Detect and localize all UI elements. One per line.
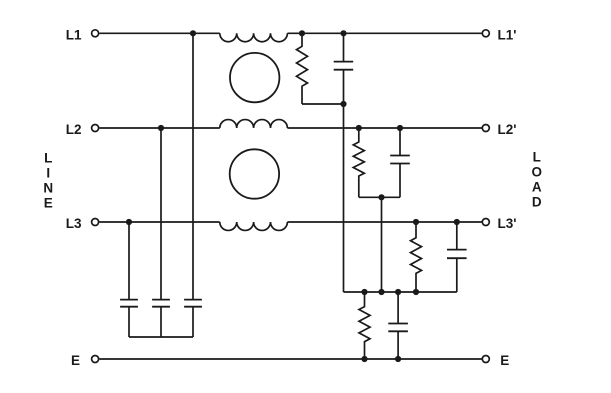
junction E-C4 (395, 356, 401, 362)
svg-text:L1': L1' (498, 27, 517, 42)
capacitor C3 bottom lead (456, 258, 458, 292)
terminal L3' right (482, 219, 489, 226)
wire L3 to star cap (128, 222, 130, 300)
capacitor C2 (390, 156, 410, 164)
wire E line (99, 358, 481, 360)
terminal L3 left (92, 219, 99, 226)
capacitor C4 bottom lead (397, 331, 399, 359)
terminal L2 left (92, 125, 99, 132)
capacitor C2 bottom lead (399, 164, 401, 198)
terminal E left (92, 356, 99, 363)
svg-text:LOAD: LOAD (532, 150, 543, 210)
junction node B (378, 194, 384, 200)
wire L2 right segment (287, 127, 481, 129)
wire CX1 to star point (192, 307, 194, 337)
svg-text:L1: L1 (66, 27, 82, 42)
inductor L1 winding (220, 33, 288, 41)
resistor R1 (297, 33, 308, 104)
core T1 circle (230, 53, 279, 102)
junction L1-star (190, 30, 196, 36)
wire CX2 to star point (160, 307, 162, 337)
wire L3 left segment (99, 221, 220, 223)
junction L1-R1 (299, 30, 305, 36)
capacitor C1 top lead (343, 33, 345, 61)
terminal L1 left (92, 30, 99, 37)
svg-text:E: E (71, 353, 80, 368)
svg-text:L2': L2' (498, 122, 517, 137)
inductor L2 winding (220, 120, 288, 128)
wire R2 bottom (359, 196, 400, 198)
resistor R4 (359, 292, 370, 359)
junction node A (340, 101, 346, 107)
core T2 circle (230, 149, 279, 198)
terminal E right (482, 356, 489, 363)
wire L2 to star cap (160, 128, 162, 300)
wire bus (344, 291, 457, 293)
wire L3 right segment (287, 221, 481, 223)
resistor R2 (353, 128, 364, 197)
wire R1 bottom (302, 103, 344, 105)
wire CX3 to star point (128, 307, 130, 337)
junction bus-R4 (361, 289, 367, 295)
resistor R3 (411, 222, 422, 292)
svg-text:L2: L2 (66, 122, 82, 137)
capacitor C1 bottom lead (343, 70, 345, 104)
junction L3-R3 (413, 219, 419, 225)
wire L2 left segment (99, 127, 220, 129)
wire L1 right segment (287, 32, 481, 34)
terminal L1' right (482, 30, 489, 37)
capacitor CX3 (L3 star) (120, 300, 138, 307)
wire L1 to star cap (192, 33, 194, 299)
junction bus-node B (378, 289, 384, 295)
junction L2-R2 (356, 125, 362, 131)
wire node A down (343, 104, 345, 292)
junction L3-star (126, 219, 132, 225)
junction bus-R3 (413, 289, 419, 295)
capacitor C1 (334, 62, 354, 70)
junction L3-C3 (454, 219, 460, 225)
junction L1-C1 (340, 30, 346, 36)
inductor L3 winding (220, 222, 288, 230)
capacitor CX1 (L1 star) (184, 300, 202, 307)
wire L1 left segment (99, 32, 220, 34)
capacitor C3 top lead (456, 222, 458, 250)
junction L2-C2 (397, 125, 403, 131)
junction L2-star (158, 125, 164, 131)
capacitor C3 (447, 250, 467, 259)
svg-text:LINE: LINE (43, 151, 53, 211)
wire node B down (381, 197, 383, 292)
terminal L2' right (482, 125, 489, 132)
junction E-R4 (361, 356, 367, 362)
wire star point bus (129, 336, 193, 338)
capacitor CX2 (L2 star) (152, 300, 170, 307)
svg-text:E: E (500, 353, 509, 368)
capacitor C2 top lead (399, 128, 401, 156)
junction bus-C4 (395, 289, 401, 295)
svg-text:L3: L3 (66, 216, 82, 231)
capacitor C4 top lead (397, 292, 399, 324)
capacitor C4 (388, 324, 408, 332)
svg-text:L3': L3' (498, 216, 517, 231)
